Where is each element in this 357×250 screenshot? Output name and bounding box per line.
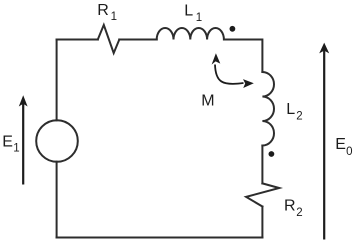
wire top-left horizontal [57,39,98,41]
resistor R2 [246,183,279,206]
label E0 [335,136,352,158]
wire between R1 and L1 [119,39,156,41]
svg-text:E: E [335,136,346,153]
svg-text:L: L [184,3,193,20]
voltage source E1 circle [36,120,78,162]
svg-text:R: R [284,197,296,214]
label L1 [184,3,202,25]
resistor R1 [98,25,120,53]
svg-text:L: L [286,101,295,118]
inductor L1 [157,28,224,40]
wire between L2 and R2 [261,146,263,184]
wire bottom horizontal [57,237,263,239]
wire R2 to bottom-right corner [261,207,263,238]
svg-text:E: E [2,133,13,150]
arrow E1 (left, pointing up) [19,95,28,184]
label R1 [97,2,117,23]
label E1 [2,133,19,154]
dot polarity mark for L2 [269,151,275,157]
arrow E0 (right, pointing up) [319,43,329,240]
svg-text:1: 1 [196,12,202,24]
label L2 [286,101,303,122]
svg-text:2: 2 [296,111,302,123]
label R2 [284,197,303,219]
inductor L2 [262,72,274,146]
svg-text:1: 1 [13,143,19,155]
wire left lower vertical [56,162,58,238]
svg-text:0: 0 [346,146,352,158]
svg-text:2: 2 [296,207,302,219]
wire L1 to top-right corner down to L2 [224,40,262,73]
svg-text:M: M [201,93,214,110]
svg-text:1: 1 [111,11,117,23]
svg-text:R: R [97,2,109,19]
wire left upper vertical [56,40,58,121]
dot polarity mark for L1 [230,26,236,32]
mutual coupling arrow M (curved, two heads) [212,53,254,88]
